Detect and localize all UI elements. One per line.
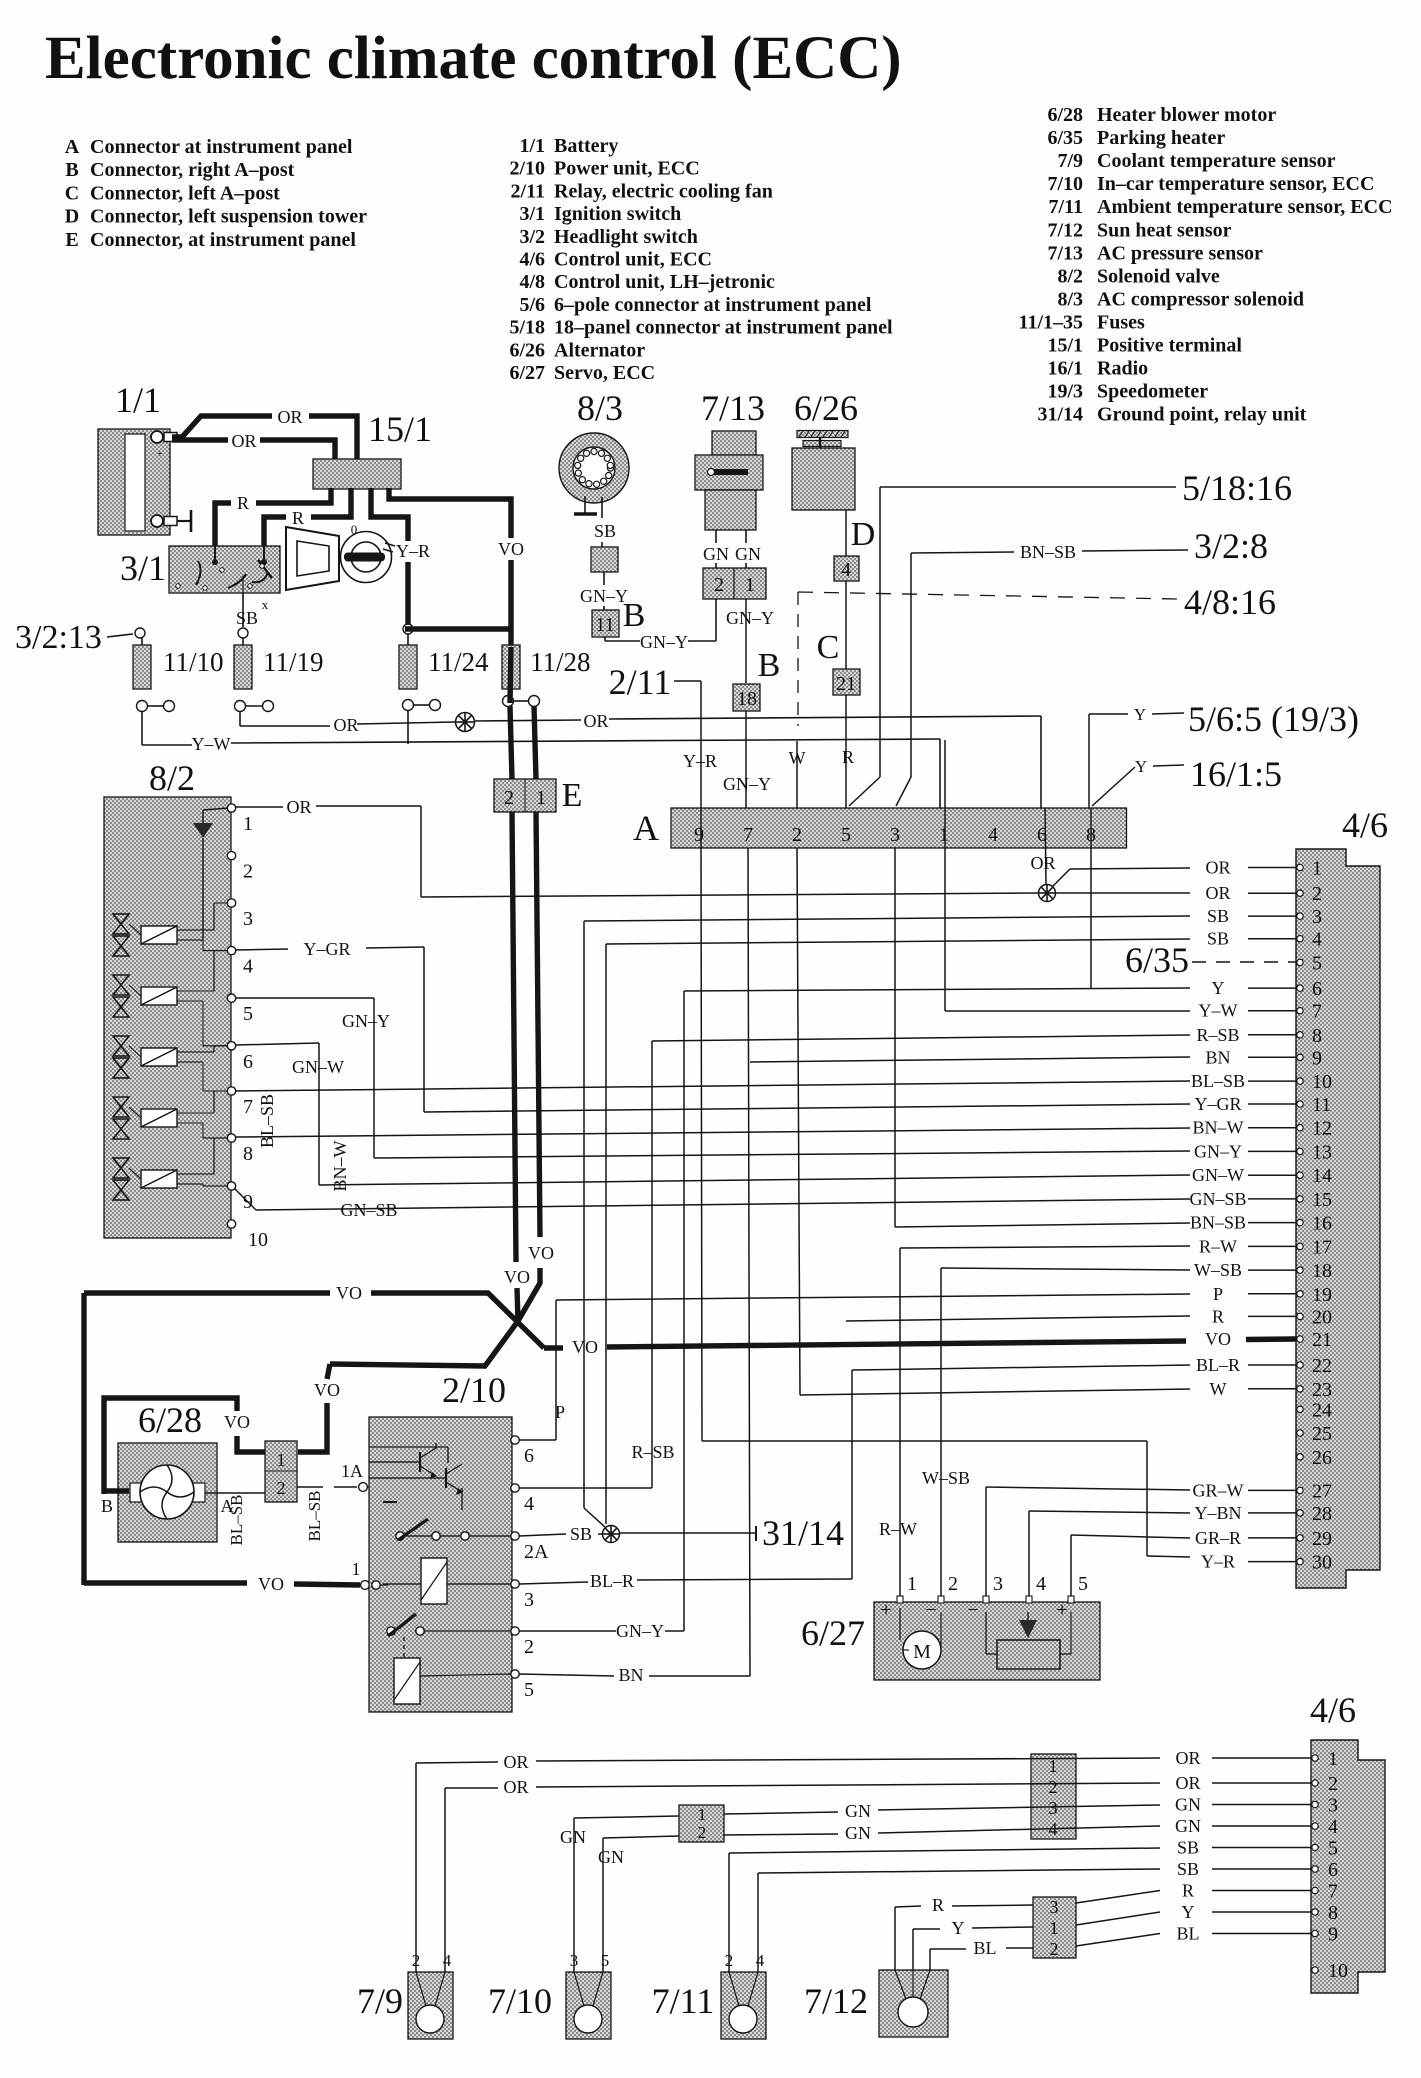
svg-text:Alternator: Alternator [554,339,645,361]
wire A9 vertical [700,808,702,848]
svg-text:27: 27 [1312,1480,1332,1502]
svg-text:Headlight switch: Headlight switch [554,226,698,248]
svg-text:5: 5 [1312,952,1322,974]
svg-text:2A: 2A [524,1541,549,1563]
svg-text:2: 2 [1328,1773,1338,1795]
wire P row to 4/6 pin19 [555,1294,1190,1440]
svg-text:VO: VO [572,1337,598,1357]
svg-text:1: 1 [1050,1918,1059,1938]
svg-text:GR–W: GR–W [1193,1480,1244,1500]
wire R row to 4/6 pin20 [846,1316,1190,1321]
wire VO feed [389,488,524,645]
svg-text:BL–SB: BL–SB [257,1094,277,1148]
svg-text:R: R [932,1895,944,1915]
svg-text:1A: 1A [341,1461,363,1481]
wire VO loop bottom [84,1559,369,1594]
wire BL 7/12 [930,1934,1160,1971]
svg-text:6: 6 [1328,1859,1338,1881]
svg-text:P: P [1213,1284,1223,1304]
wire R-W row to 4/6 pin17 [879,1246,1190,1602]
wire GN-W row to 4/6 pin14 [319,1175,1190,1185]
label 3/2:8 [1194,526,1268,566]
svg-text:+: + [1056,1599,1067,1621]
svg-text:OR: OR [583,711,608,731]
svg-text:BL: BL [1176,1924,1199,1944]
svg-text:8: 8 [1312,1025,1322,1047]
svg-text:8: 8 [243,1143,253,1165]
svg-text:2: 2 [1049,1777,1058,1797]
pins 2/10 [511,1436,549,1701]
wire Y-W feed line [142,711,940,808]
svg-text:2: 2 [1312,883,1322,905]
svg-text:In–car temperature sensor, ECC: In–car temperature sensor, ECC [1097,173,1374,195]
wire VO right vertical [518,706,554,1321]
svg-text:24: 24 [1312,1399,1332,1421]
wire BN-SB row to 4/6 pin16 [895,848,1190,1227]
svg-text:7/9: 7/9 [1057,150,1083,172]
svg-text:E: E [562,777,583,814]
svg-text:3: 3 [1312,906,1322,928]
junction spokes below A6 [1039,885,1056,902]
wire BN-W row to 4/6 pin12 [236,1128,1190,1137]
svg-text:1: 1 [1328,1748,1338,1770]
control unit 4/6 connector [1296,849,1380,1588]
connector E [494,779,556,812]
svg-text:OR: OR [231,431,256,451]
svg-text:Connector at instrument panel: Connector at instrument panel [90,136,353,158]
wire P from 2/10 pin6 [519,1439,556,1441]
label 5/6:5 (19/3) [1188,699,1359,739]
wire VO row to 4/6 pin21 [544,1337,1186,1357]
svg-text:26: 26 [1312,1447,1332,1469]
solenoid valve block 8/2 [104,797,231,1238]
svg-text:4/8: 4/8 [519,271,545,293]
svg-text:6: 6 [524,1445,534,1467]
svg-text:6: 6 [1312,978,1322,1000]
svg-text:VO: VO [224,1412,250,1432]
svg-text:18–panel connector at instrume: 18–panel connector at instrument panel [554,317,893,339]
svg-text:R–W: R–W [879,1519,917,1539]
svg-text:19: 19 [1312,1284,1332,1306]
svg-text:2: 2 [243,861,253,883]
svg-text:GN: GN [845,1823,871,1843]
svg-text:4/6: 4/6 [1310,1690,1356,1730]
switch 2 internal [387,1614,511,1658]
in-car temperature sensor 7/10 [566,1951,611,2039]
svg-text:7/11: 7/11 [1049,196,1083,218]
svg-text:GN–W: GN–W [292,1057,344,1077]
svg-text:R–SB: R–SB [1196,1025,1239,1045]
svg-text:BN–W: BN–W [1193,1118,1244,1138]
svg-text:Relay, electric cooling fan: Relay, electric cooling fan [554,180,773,202]
svg-text:R: R [237,493,249,513]
svg-text:OR: OR [1175,1748,1200,1768]
svg-text:OR: OR [1175,1773,1200,1793]
svg-text:6/28: 6/28 [138,1400,202,1440]
wire OR feed line [240,711,1041,735]
ignition key symbol [341,522,396,583]
dashed wire 6/35 to pin5 [1192,961,1296,963]
junction spokes OR [456,713,475,732]
label 4/6 top [1342,805,1388,845]
wire GN-Y to A7 [723,711,771,808]
wire to 18 box [745,599,747,683]
connector 1|2 sensors [679,1805,724,1842]
wire Y-R [371,488,430,629]
svg-text:x: x [262,597,269,612]
svg-text:11/28: 11/28 [530,647,591,677]
wire GN row4 [724,1823,1160,1843]
pins 8/2 [227,804,268,1251]
svg-text:Electronic climate control (EC: Electronic climate control (ECC) [45,25,902,92]
wire OR drop to A6 [1040,716,1042,808]
svg-text:21: 21 [1312,1329,1332,1351]
svg-text:1: 1 [939,824,949,846]
svg-text:+: + [157,449,163,460]
svg-text:19/3: 19/3 [1047,381,1083,403]
positive terminal 15/1 [313,459,401,489]
connector D 4 box [834,556,859,581]
svg-text:C: C [817,629,840,666]
svg-text:1: 1 [745,574,755,596]
wire OR from 8/2 pin1 [236,797,421,897]
svg-text:4: 4 [988,824,998,846]
svg-text:3: 3 [524,1589,534,1611]
label 8/2 [149,758,195,798]
wire W to A2 [789,741,806,808]
label 11/19 [263,647,324,677]
svg-text:GN–Y: GN–Y [1194,1141,1242,1161]
svg-text:10: 10 [248,1229,268,1251]
svg-text:Control unit, ECC: Control unit, ECC [554,249,712,271]
svg-text:7/11: 7/11 [652,1981,715,2021]
wire VO branch to connector [298,1321,518,1452]
svg-text:Power unit, ECC: Power unit, ECC [554,158,700,180]
svg-text:A: A [65,136,80,158]
svg-text:Y–R: Y–R [396,541,430,561]
svg-text:BN: BN [1205,1047,1230,1067]
svg-text:15: 15 [1312,1189,1332,1211]
svg-text:3: 3 [1328,1795,1338,1817]
svg-text:B: B [101,1496,113,1516]
svg-text:Ground point, relay unit: Ground point, relay unit [1097,404,1307,426]
svg-text:P: P [555,1402,565,1422]
wire SB 8/3 [594,497,616,547]
ground 8/3 [574,496,597,514]
svg-text:3/2:13: 3/2:13 [15,619,102,656]
svg-text:4: 4 [524,1493,534,1515]
wire D to C [845,581,847,669]
wire GR-R row to 4/6 pin29 [1071,1535,1190,1602]
svg-text:GN: GN [1175,1795,1201,1815]
connector 312 box [1033,1897,1076,1959]
svg-text:7/12: 7/12 [804,1981,868,2021]
alternator 6/26 [792,431,855,511]
wire GN-Y from 8/2 pin5 [236,998,390,1158]
svg-text:8/2: 8/2 [149,758,195,798]
ambient temperature sensor 7/11 [721,1951,766,2039]
svg-text:5: 5 [1328,1838,1338,1860]
svg-text:−: − [967,1599,978,1621]
label 6/27 [801,1613,865,1653]
svg-text:Y–W: Y–W [192,734,231,754]
svg-text:2: 2 [524,1636,534,1658]
svg-text:6/35: 6/35 [1047,127,1083,149]
svg-text:7: 7 [1312,1001,1322,1023]
svg-text:16/1: 16/1 [1047,358,1083,380]
svg-text:13: 13 [1312,1141,1332,1163]
pin labels 4/6 bottom [1175,1748,1311,1944]
label 2/11 [609,662,672,702]
svg-text:Y–BN: Y–BN [1194,1503,1241,1523]
svg-text:BL–R: BL–R [1196,1355,1240,1375]
svg-text:Radio: Radio [1097,358,1148,380]
svg-text:1: 1 [1312,858,1322,880]
svg-text:Y: Y [1134,705,1146,724]
svg-text:OR: OR [1205,883,1230,903]
svg-text:GN: GN [735,544,761,564]
svg-text:16/1:5: 16/1:5 [1190,754,1282,794]
svg-text:11: 11 [595,614,614,636]
svg-text:5/6:5 (19/3): 5/6:5 (19/3) [1188,699,1359,739]
svg-text:8/3: 8/3 [1057,288,1083,310]
svg-text:2/11: 2/11 [609,662,672,702]
label 11/24 [428,647,489,677]
svg-text:Sun heat sensor: Sun heat sensor [1097,219,1232,241]
svg-text:E: E [65,229,78,251]
label 11/10 [163,647,224,677]
wire OR lower [172,431,335,459]
svg-text:4: 4 [1328,1816,1338,1838]
svg-text:Solenoid valve: Solenoid valve [1097,265,1220,287]
svg-text:OR: OR [1030,853,1055,873]
svg-text:14: 14 [1312,1165,1332,1187]
svg-text:Y: Y [1135,757,1147,776]
svg-text:Connector, left A–post: Connector, left A–post [90,182,280,204]
svg-text:1: 1 [536,787,546,809]
svg-text:W–SB: W–SB [1194,1260,1242,1280]
svg-text:8/3: 8/3 [577,388,623,428]
svg-text:B: B [623,597,646,634]
svg-text:5: 5 [243,1003,253,1025]
svg-text:2/10: 2/10 [442,1370,506,1410]
svg-text:25: 25 [1312,1423,1332,1445]
fuse 11/10 [133,638,175,712]
svg-text:6/26: 6/26 [794,388,858,428]
wire to 5/18:16 [849,487,1176,806]
svg-text:4/6: 4/6 [519,249,545,271]
svg-text:2: 2 [792,824,802,846]
wire BL-R row to 4/6 pin22 [852,1365,1190,1579]
svg-text:11/1–35: 11/1–35 [1019,311,1083,333]
svg-text:7/12: 7/12 [1047,219,1083,241]
svg-text:6/26: 6/26 [509,339,545,361]
label 5/18:16 [1182,468,1292,508]
wire GN row3 [724,1801,1160,1821]
svg-text:R: R [292,508,304,528]
svg-text:Coolant temperature sensor: Coolant temperature sensor [1097,150,1336,172]
svg-text:BN–SB: BN–SB [1020,542,1076,562]
label 1/1 [115,380,161,420]
svg-text:2: 2 [1050,1939,1059,1959]
svg-text:GN–Y: GN–Y [723,774,771,794]
svg-text:5/6: 5/6 [519,294,545,316]
wire SB row to 4/6 pin3 [584,916,1190,1508]
label 7/12 [804,1981,868,2021]
control unit 4/6 bottom connector [1311,1740,1385,1993]
svg-text:SB: SB [1207,906,1229,926]
svg-text:GN–Y: GN–Y [616,1621,664,1641]
wire R 1 [215,488,331,546]
pin labels 4/6 [1189,858,1296,1572]
svg-text:C: C [65,182,79,204]
svg-text:1: 1 [243,813,253,835]
svg-text:1: 1 [352,1559,361,1579]
svg-text:GN–Y: GN–Y [580,586,628,606]
svg-text:29: 29 [1312,1528,1332,1550]
svg-text:SB: SB [236,608,258,628]
svg-text:AC compressor solenoid: AC compressor solenoid [1097,288,1304,310]
svg-text:D: D [851,516,876,553]
svg-text:Positive terminal: Positive terminal [1097,335,1242,357]
label 7/13 [701,388,765,428]
svg-text:4: 4 [1312,929,1322,951]
wire R-SB row to 4/6 pin8 [631,1035,1190,1488]
wire SB 7/11 pin2 [729,1848,1160,1972]
label E [562,777,583,814]
connector 2|1 below 7/13 [703,568,766,599]
svg-text:BN–W: BN–W [330,1140,350,1191]
label D [851,516,876,553]
connector A strip [671,808,1127,848]
svg-text:BL–R: BL–R [590,1571,634,1591]
svg-text:GN: GN [845,1801,871,1821]
wire Y to 5/6:5 [1089,705,1184,808]
svg-text:OR: OR [503,1752,528,1772]
svg-text:OR: OR [1205,858,1230,878]
wire 2/11 to A9 [674,681,717,808]
svg-text:21: 21 [836,673,856,695]
label C [817,629,840,666]
svg-text:Y–GR: Y–GR [303,939,350,959]
svg-text:1/1: 1/1 [519,135,545,157]
svg-text:VO: VO [1205,1329,1231,1349]
wire Y-GR from 8/2 pin4 [236,939,424,1112]
wire OR 7/9 pin2 [416,1752,1160,1972]
wire SB to ground 31/14 [619,1526,756,1541]
label 8/3 [577,388,623,428]
svg-text:8: 8 [1328,1902,1338,1924]
legend connectors A-E [65,136,367,251]
wire GN-Y 8/3 [580,572,628,610]
svg-text:GN: GN [598,1847,624,1867]
svg-text:28: 28 [1312,1503,1332,1525]
svg-text:1: 1 [277,1450,286,1470]
svg-text:VO: VO [504,1267,530,1287]
svg-text:7/13: 7/13 [1047,242,1083,264]
wires GN GN 7/13 [703,530,761,568]
fuse 11/24 [399,624,441,744]
svg-text:GR–R: GR–R [1195,1528,1241,1548]
wire GN 7/10 pin3 [560,1816,679,1972]
svg-text:GN–Y: GN–Y [342,1011,390,1031]
wire GN-Y below 2|1 [726,608,774,628]
svg-text:8/2: 8/2 [1057,265,1083,287]
wire GN-SB row to 4/6 pin15 [256,1199,1190,1210]
fuse 11/28 [502,645,540,707]
svg-text:12: 12 [1312,1118,1332,1140]
svg-text:Fuses: Fuses [1097,311,1145,333]
svg-text:15/1: 15/1 [1047,335,1083,357]
svg-text:Ignition switch: Ignition switch [554,203,681,225]
svg-text:D: D [65,206,79,228]
svg-text:5: 5 [524,1679,534,1701]
svg-text:BN: BN [618,1665,643,1685]
switch 2A internal [396,1519,511,1540]
svg-text:GN: GN [703,544,729,564]
connector C 21 box [833,669,860,695]
label 31/14 [762,1513,844,1553]
coolant temperature sensor 7/9 [408,1951,453,2039]
svg-text:B: B [65,159,78,181]
svg-text:16: 16 [1312,1213,1332,1235]
ignition connector cone [286,527,339,590]
dashed wire to 4/8:16 [798,592,1178,599]
label 7/9 [357,1981,403,2021]
svg-text:R–SB: R–SB [631,1442,674,1462]
svg-text:6–pole connector at instrument: 6–pole connector at instrument panel [554,294,872,316]
wire Y row to 4/6 pin6 [684,808,1190,1631]
svg-text:1: 1 [698,1805,707,1824]
svg-text:BL–SB: BL–SB [1191,1071,1245,1091]
svg-text:0: 0 [351,522,358,537]
svg-text:SB: SB [570,1524,592,1544]
svg-text:6/28: 6/28 [1047,104,1083,126]
svg-text:Servo, ECC: Servo, ECC [554,362,655,384]
svg-text:OR: OR [286,797,311,817]
wire to fuse 11/10 [107,628,145,638]
wire Y-W row to 4/6 pin7 [945,740,1190,1011]
svg-text:7: 7 [743,824,753,846]
label 7/10 [488,1981,552,2021]
connector 1234 box [1031,1754,1076,1839]
svg-text:2/10: 2/10 [509,158,545,180]
wire VO loop left [81,1293,86,1585]
connector 1|2 blower [265,1441,297,1502]
wire 6/26 to D [845,510,847,556]
svg-text:7: 7 [243,1096,253,1118]
connector box 8/3 [591,547,618,572]
label 15/1 [368,409,432,449]
svg-text:SB: SB [1177,1838,1199,1858]
svg-text:B: B [758,647,781,684]
svg-text:5: 5 [1078,1573,1088,1595]
label 2/10 [442,1370,506,1410]
label 11/28 [530,647,591,677]
svg-text:10: 10 [1328,1960,1348,1982]
wire Y 7/12 [913,1912,1160,1970]
AC compressor solenoid 8/3 [559,433,629,503]
svg-text:3/2: 3/2 [519,226,545,248]
svg-text:A: A [633,808,659,848]
label 3/2:13 [15,619,102,656]
svg-text:VO: VO [314,1380,340,1400]
svg-text:−: − [925,1599,936,1621]
svg-text:22: 22 [1312,1355,1332,1377]
svg-text:Parking heater: Parking heater [1097,127,1225,149]
svg-text:2: 2 [714,574,724,596]
svg-text:OR: OR [503,1777,528,1797]
